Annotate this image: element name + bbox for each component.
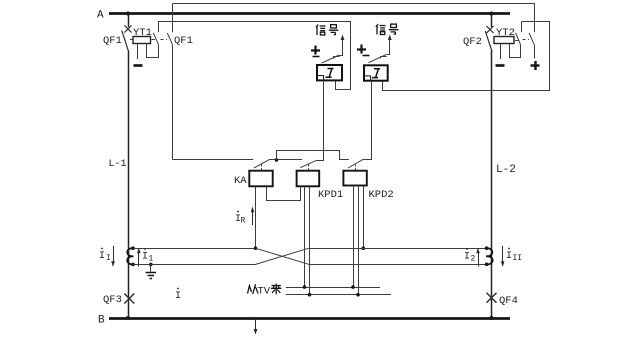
relay KA box [249, 171, 272, 187]
QF2 aux contact B bottom stub [534, 45, 536, 59]
svg-text:QF2: QF2 [463, 36, 482, 48]
svg-text:QF1: QF1 [174, 35, 193, 47]
U1 contact hook [334, 57, 340, 59]
CT1 bottom terminal node [131, 263, 135, 267]
svg-text:TV: TV [258, 286, 271, 298]
svg-text:R: R [241, 217, 246, 226]
breaker QF3 cross [124, 294, 134, 304]
wire KPD2 lead to CT bus [363, 186, 365, 249]
CT1 top terminal node [131, 246, 135, 250]
QF2 aux contact A blade [516, 33, 521, 45]
svg-text:A: A [97, 10, 104, 22]
wire YT2 right lead to contact [510, 44, 521, 58]
CT2 arcs (right current transformer) [486, 248, 492, 264]
svg-text:QF1: QF1 [103, 35, 122, 47]
node ground tap [149, 263, 153, 267]
KPD1 contact blade [300, 160, 317, 168]
TV label (cong TV lai) [248, 284, 259, 294]
QF1 aux contact 1 top stub [158, 21, 160, 32]
plus terminal near QF2 aux [531, 61, 540, 70]
svg-text:KPD1: KPD1 [318, 189, 343, 201]
U2 signal arrow [386, 39, 389, 55]
signal relay U1 box [317, 65, 342, 80]
svg-text:1: 1 [149, 255, 154, 264]
breaker QF1 blade [122, 31, 129, 51]
node KPD2 on TV1 [351, 285, 355, 289]
KPD2 contact blade [348, 159, 364, 168]
wire W2 signal relay 2 to QF2 aux [383, 22, 550, 91]
svg-text:B: B [98, 315, 105, 327]
wire TV line 1 [286, 287, 380, 289]
svg-text:I: I [464, 252, 470, 263]
CT secondary wire bottom-left [133, 264, 256, 266]
breaker QF1 cross [125, 26, 132, 33]
KA contact link dash [261, 165, 263, 171]
load feeder arrow below bus B [255, 318, 257, 331]
CT secondary wire bottom-right [309, 264, 487, 266]
svg-text:YT1: YT1 [133, 27, 152, 39]
svg-text:L-2: L-2 [496, 164, 516, 176]
wire KA left lead down [255, 187, 257, 249]
node KPD2 lead on CT bus [362, 246, 366, 250]
wire KA right lead staple to KPD1 [267, 187, 301, 201]
svg-text:KPD2: KPD2 [369, 189, 394, 201]
CT2 top terminal node [485, 246, 489, 250]
wire KPD2 lead to TV1 [353, 186, 355, 288]
svg-text:QF3: QF3 [103, 294, 122, 306]
svg-text:QF4: QF4 [499, 295, 518, 307]
junction bus B / L-2 [490, 316, 494, 320]
wire U2 left lead down to KPD2 contact [364, 81, 372, 160]
junction bus B / L-1 [126, 316, 130, 320]
KPD1 contact link dash [308, 165, 310, 171]
wire U1 left lead down to KPD1 contact [317, 80, 324, 160]
wire crossover diagonal A [256, 248, 309, 264]
U2 contact hook [381, 57, 387, 59]
U1 signal arrow [339, 39, 342, 56]
svg-text:KA: KA [234, 175, 247, 187]
mech link dashes YT2 to contacts [515, 40, 519, 42]
wire feeder L-2 vertical [491, 14, 493, 28]
wire after KA contact [269, 159, 302, 161]
U2 inner notch [364, 76, 371, 81]
mech link dashes YT1 to contacts [130, 39, 133, 41]
KPD2 contact link dash [355, 165, 357, 171]
I_2 arrow up [478, 252, 480, 267]
QF2 aux contact A top stub [521, 21, 523, 32]
relay KPD1 box [297, 171, 320, 187]
wire feeder L-1 vertical [128, 14, 130, 28]
plus terminal U1 [311, 46, 320, 55]
CT secondary wire top-left [133, 248, 256, 250]
wire stub up from junction [276, 150, 278, 160]
junction bus A / L-1 [126, 12, 130, 16]
svg-text:L-1: L-1 [109, 159, 127, 170]
trip coil YT2 [494, 37, 514, 44]
QF1 aux contact 2 blade on riser [167, 33, 172, 45]
U2 coil symbol I [372, 69, 380, 78]
wire KPD1 lead to TV2 [309, 187, 311, 295]
CT secondary wire top-right [309, 248, 487, 250]
ground symbol [150, 264, 152, 271]
U1 contact blade [322, 55, 340, 63]
breaker QF2 cross [487, 26, 494, 33]
I_I arrow down [113, 246, 115, 263]
wire KPD2 lead to TV2 [358, 186, 360, 295]
U1 inner notch [317, 76, 324, 81]
CT1 arcs (left current transformer) [127, 248, 133, 264]
U1 coil symbol I [326, 69, 334, 78]
breaker QF4 cross [487, 293, 497, 303]
trip coil YT1 [133, 37, 151, 44]
KA contact blade [254, 160, 269, 168]
QF2 aux contact B blade [529, 33, 534, 45]
node KPD1 on TV1 [303, 285, 307, 289]
IR arrow up [252, 211, 254, 225]
svg-text:II: II [513, 254, 523, 263]
node KPD1 on TV2 [308, 293, 312, 297]
junction bus A / L-2 [490, 12, 494, 16]
signal label 2 (xin hao) [376, 24, 398, 35]
svg-text:I: I [506, 251, 512, 262]
CT2 bottom terminal node [485, 263, 489, 267]
wire YT1 left lead [137, 44, 139, 60]
wire YT1 right lead to contact [147, 44, 159, 58]
wire TV line 2 [286, 294, 391, 296]
bus A [109, 12, 510, 15]
relay contact bus segment left [173, 159, 254, 161]
plus terminal U2 [357, 45, 366, 54]
breaker QF2 blade [485, 31, 492, 51]
QF1 aux contact 1 blade [153, 33, 158, 45]
relay KPD2 box [343, 171, 366, 186]
svg-text:I: I [99, 251, 105, 262]
wire crossover diagonal B [256, 248, 309, 264]
wire riser top segment [172, 4, 174, 33]
I_II arrow down [502, 246, 504, 263]
minus terminal YT2 [496, 64, 505, 67]
svg-text:YT2: YT2 [496, 27, 515, 39]
wire riser bottom segment to relay bus [172, 45, 174, 160]
wire KPD1 lead to TV1 [304, 187, 306, 288]
wire H1 to KPD2 contact [277, 151, 349, 160]
svg-text:I: I [142, 252, 148, 263]
signal label 1 (xin hao) [316, 25, 338, 36]
wire top link (plus rail over the top) [173, 4, 535, 33]
signal relay U2 box [364, 65, 388, 80]
minus terminal YT1 [134, 64, 143, 67]
node KPD2 on TV2 [356, 293, 360, 297]
svg-text:I: I [106, 254, 111, 263]
bus B [109, 317, 510, 320]
svg-text:I: I [175, 291, 181, 302]
U2 contact blade [369, 55, 387, 63]
node KA lead on CT wire [254, 246, 258, 250]
wire W1 QF1 aux to signal relay 1 [159, 22, 351, 90]
svg-text:2: 2 [471, 255, 476, 264]
wire YT2 left lead [500, 44, 502, 60]
node junction after KA contact [275, 158, 279, 162]
I_1 arrow up [138, 252, 140, 267]
